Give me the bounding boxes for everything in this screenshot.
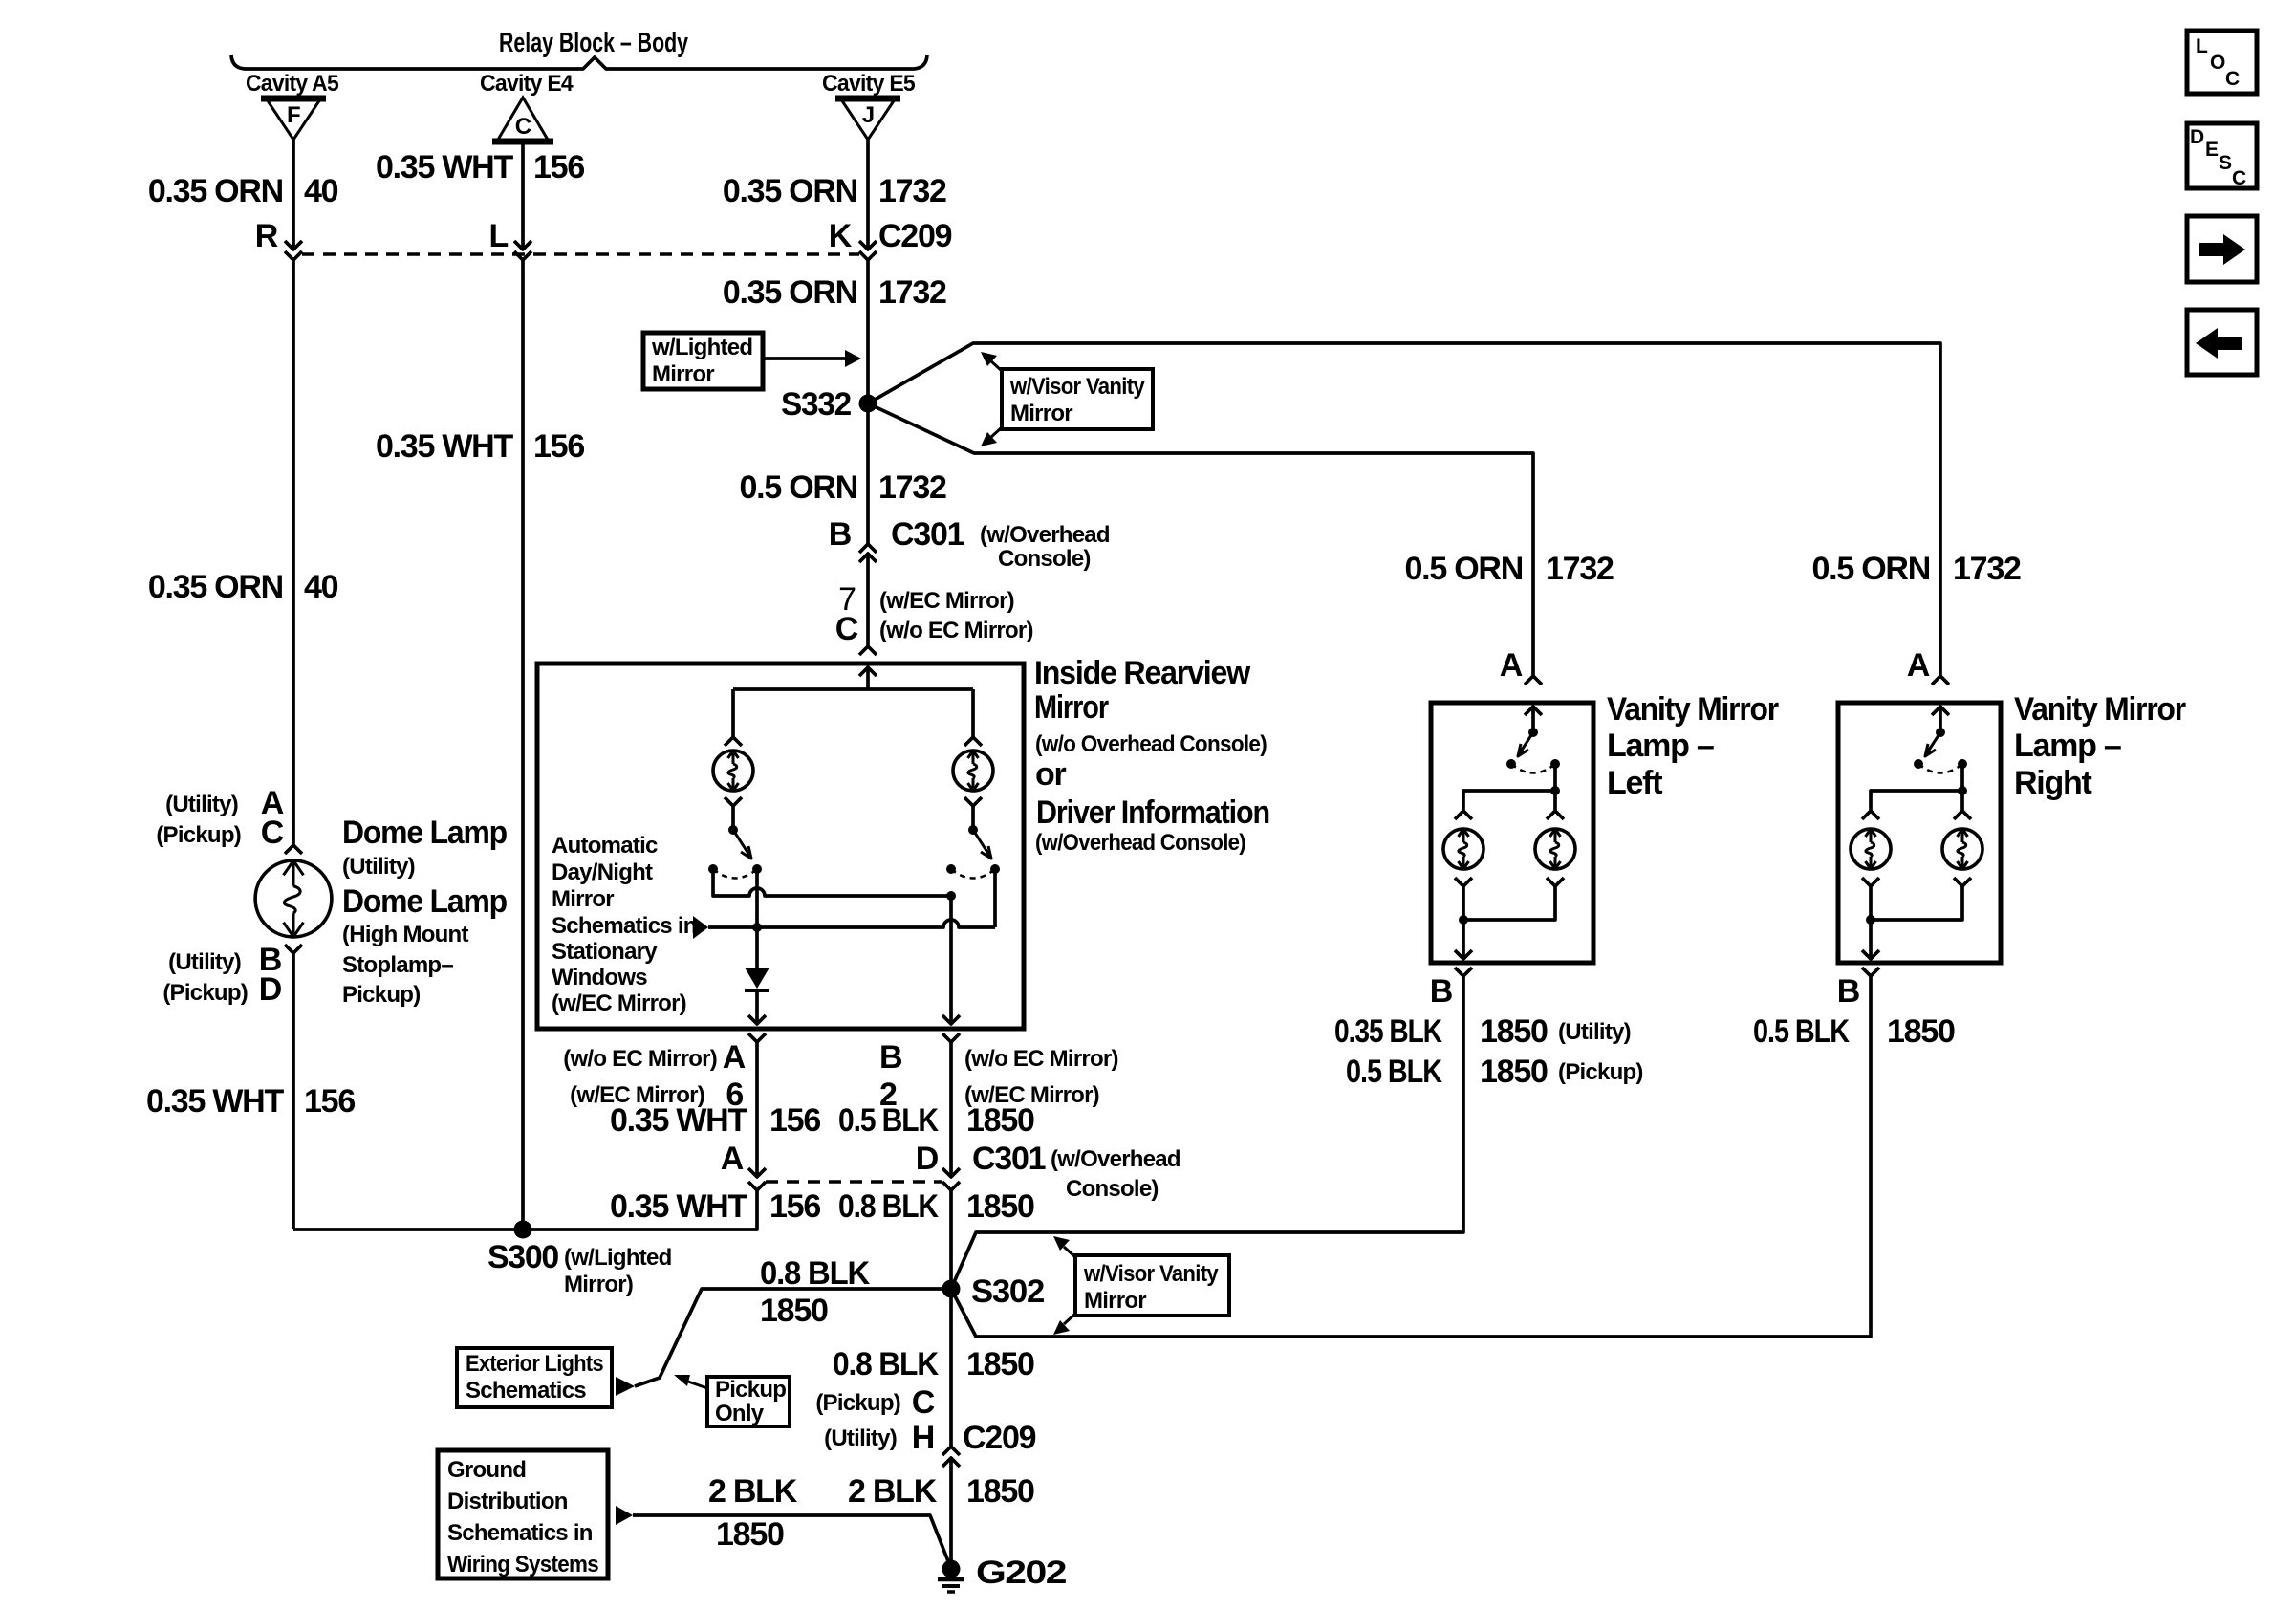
right arrow icon box <box>2187 216 2257 282</box>
svg-text:Distribution: Distribution <box>447 1489 568 1514</box>
connector C301 pin B halves <box>859 544 877 553</box>
mirror left lamp lower connector <box>725 797 742 806</box>
connector C301 pin A <box>748 1168 766 1177</box>
pin B socket (left) <box>1455 968 1472 976</box>
svg-text:Mirror: Mirror <box>652 361 714 387</box>
svg-text:Cavity E4: Cavity E4 <box>480 71 574 97</box>
svg-text:L: L <box>488 218 508 254</box>
svg-text:S302: S302 <box>971 1273 1044 1310</box>
dome lamp connector top <box>285 845 302 854</box>
wire C209-H to G202 <box>949 1458 953 1569</box>
svg-text:D: D <box>2190 126 2204 148</box>
svg-text:156: 156 <box>533 428 584 465</box>
svg-text:C301: C301 <box>972 1141 1046 1177</box>
svg-text:40: 40 <box>304 173 338 209</box>
svg-text:0.5 ORN: 0.5 ORN <box>1811 551 1930 587</box>
junction dot left column <box>752 923 762 932</box>
svg-text:0.5 ORN: 0.5 ORN <box>739 469 857 506</box>
mirror left switch arm <box>733 830 750 857</box>
svg-text:C209: C209 <box>963 1420 1036 1456</box>
mirror crossover wire upper <box>713 869 951 896</box>
svg-text:C: C <box>835 611 858 647</box>
mirror left lamp branch <box>731 689 735 736</box>
svg-text:E: E <box>2205 139 2219 161</box>
rail junction dot (right) <box>1958 786 1967 795</box>
svg-text:(High Mount: (High Mount <box>342 922 468 947</box>
svg-text:Cavity A5: Cavity A5 <box>246 71 338 97</box>
svg-text:R: R <box>255 218 278 254</box>
svg-text:0.5 BLK: 0.5 BLK <box>838 1102 939 1139</box>
svg-text:(w/EC Mirror): (w/EC Mirror) <box>552 990 686 1016</box>
svg-text:Left: Left <box>1607 765 1662 801</box>
svg-text:H: H <box>912 1420 934 1456</box>
svg-text:0.35 ORN: 0.35 ORN <box>148 173 283 209</box>
svg-text:0.5 BLK: 0.5 BLK <box>1753 1013 1850 1050</box>
wire contact to lamp rail (left) <box>1553 764 1557 791</box>
svg-text:40: 40 <box>304 569 338 605</box>
svg-text:Stationary: Stationary <box>552 939 658 965</box>
mirror right switch arm <box>973 830 990 857</box>
LOC icon box <box>2187 31 2257 94</box>
mirror right lamp branch <box>971 689 975 736</box>
pin B socket (right) <box>1862 968 1879 976</box>
svg-text:Relay Block – Body: Relay Block – Body <box>499 28 688 58</box>
svg-text:Right: Right <box>2014 765 2092 801</box>
svg-text:A: A <box>723 1039 746 1076</box>
svg-text:(Utility): (Utility) <box>168 949 241 975</box>
mirror feed arrowhead <box>859 667 877 676</box>
arrow w/Lighted Mirror to wire <box>765 357 845 360</box>
svg-text:Only: Only <box>715 1401 765 1426</box>
connector C301 pin D <box>942 1168 960 1177</box>
svg-text:or: or <box>1035 756 1067 793</box>
svg-text:A: A <box>1500 647 1523 684</box>
lamp rail (right) <box>1871 791 1962 810</box>
svg-text:Pickup: Pickup <box>715 1377 786 1403</box>
exterior lights pointer triangle <box>616 1377 635 1396</box>
svg-text:(Utility): (Utility) <box>824 1425 897 1451</box>
vanity lamp 1 (left) <box>1455 811 1472 819</box>
svg-text:1732: 1732 <box>1953 551 2021 587</box>
svg-text:0.8 BLK: 0.8 BLK <box>833 1346 940 1382</box>
mirror right lamp lower connector <box>964 797 982 806</box>
DESC icon box <box>2187 123 2257 188</box>
svg-text:0.35 WHT: 0.35 WHT <box>146 1083 285 1120</box>
svg-text:1732: 1732 <box>878 173 946 209</box>
callout arrows to visor wires <box>990 360 1002 371</box>
svg-text:(w/o Overhead Console): (w/o Overhead Console) <box>1035 731 1267 757</box>
wire S332 to left vanity feed (bottom) <box>868 403 1533 676</box>
svg-text:K: K <box>829 218 853 254</box>
w/Visor Vanity Mirror callout box 2 <box>1075 1255 1229 1316</box>
mirror left switch contacts <box>708 864 718 874</box>
wire J down to C209 <box>866 140 870 250</box>
svg-text:Mirror: Mirror <box>1010 401 1072 426</box>
pickup only box <box>707 1377 790 1426</box>
wire left contact down <box>755 869 759 927</box>
svg-text:w/Visor Vanity: w/Visor Vanity <box>1009 374 1145 400</box>
svg-text:(Pickup): (Pickup) <box>815 1390 900 1416</box>
svg-text:C301: C301 <box>891 516 964 553</box>
pin A socket (left) <box>1525 676 1542 685</box>
mirror left switch dashed arc <box>713 869 757 879</box>
exit wire (left) <box>1462 920 1465 959</box>
return junction dot (right) <box>1866 915 1875 925</box>
svg-text:(Utility): (Utility) <box>165 792 238 817</box>
svg-text:0.5 BLK: 0.5 BLK <box>1346 1054 1442 1090</box>
svg-text:B: B <box>829 516 852 553</box>
svg-text:Automatic: Automatic <box>552 833 658 859</box>
pin A/6 socket <box>748 1033 766 1042</box>
mirror left switch pivot <box>728 825 738 835</box>
vanity lamp 1 (right) <box>1862 811 1879 819</box>
svg-text:Mirror: Mirror <box>1084 1288 1146 1314</box>
svg-text:B: B <box>1430 973 1453 1010</box>
svg-text:Dome Lamp: Dome Lamp <box>342 883 507 920</box>
mirror internal feed wire <box>866 667 870 689</box>
svg-text:J: J <box>862 102 875 128</box>
connector triangle C (Cavity E4) <box>492 98 553 141</box>
wire S332 to C301 pin B <box>866 403 870 544</box>
svg-text:C: C <box>2232 167 2246 189</box>
svg-text:0.35 WHT: 0.35 WHT <box>610 1102 748 1139</box>
svg-text:D: D <box>259 971 282 1008</box>
svg-text:(Pickup): (Pickup) <box>1558 1059 1643 1085</box>
svg-text:Console): Console) <box>998 546 1091 572</box>
wire vanity left return to S302 <box>951 976 1463 1289</box>
svg-text:A: A <box>1907 647 1930 684</box>
wire C down to C209 <box>521 143 525 250</box>
vanity switch arm (left) <box>1519 732 1533 754</box>
svg-text:F: F <box>287 102 300 128</box>
svg-text:C: C <box>515 114 531 140</box>
lamp return rail (right) <box>1871 886 1962 920</box>
svg-text:Schematics: Schematics <box>466 1378 586 1403</box>
svg-text:0.8 BLK: 0.8 BLK <box>760 1255 871 1292</box>
dome lamp connector bottom <box>285 945 302 953</box>
left arrow icon box <box>2187 310 2257 375</box>
svg-text:O: O <box>2210 52 2225 74</box>
svg-text:Lamp –: Lamp – <box>1607 728 1714 764</box>
svg-text:Mirror: Mirror <box>1034 689 1109 726</box>
return junction dot (left) <box>1459 915 1468 925</box>
svg-text:156: 156 <box>769 1102 820 1139</box>
svg-text:156: 156 <box>304 1083 355 1120</box>
svg-text:1850: 1850 <box>1887 1013 1955 1050</box>
wire C301-B to mirror <box>866 554 870 646</box>
ground distribution pointer triangle <box>616 1506 633 1525</box>
splice S332 dot <box>859 395 877 413</box>
ground distribution box <box>438 1450 608 1578</box>
ground G202 symbol <box>942 1560 961 1578</box>
mirror right switch dashed arc <box>951 869 995 879</box>
connector triangle F (Cavity A5) <box>261 98 326 140</box>
wire exterior lights to S302 <box>635 1289 951 1386</box>
svg-text:156: 156 <box>533 149 584 185</box>
vanity mirror lamp right box <box>1838 703 2001 963</box>
mirror left lamp <box>713 751 753 791</box>
svg-text:Driver Information: Driver Information <box>1036 794 1269 831</box>
mirror connector socket <box>859 646 877 655</box>
pin B/2 socket <box>942 1033 960 1042</box>
svg-text:Inside Rearview: Inside Rearview <box>1034 655 1251 691</box>
exterior lights schematics box <box>457 1348 612 1407</box>
wire contact to lamp rail (right) <box>1960 764 1964 791</box>
svg-text:Lamp –: Lamp – <box>2014 728 2121 764</box>
splice S302 dot <box>942 1280 961 1298</box>
connector C209 pin C/H halves <box>942 1447 960 1455</box>
svg-text:(w/EC Mirror): (w/EC Mirror) <box>879 588 1014 614</box>
svg-text:B: B <box>1837 973 1860 1010</box>
vanity switch pivot (left) <box>1528 728 1538 737</box>
svg-text:G202: G202 <box>976 1555 1066 1591</box>
feed arrowhead (right) <box>1932 707 1949 715</box>
wire L to S300 <box>521 260 525 1229</box>
svg-text:Ground: Ground <box>447 1457 526 1483</box>
inside rearview mirror box <box>537 664 1024 1029</box>
relay block brace <box>231 55 927 69</box>
svg-text:(w/Lighted: (w/Lighted <box>564 1245 672 1271</box>
vanity switch contacts (right) <box>1914 759 1923 769</box>
svg-text:1850: 1850 <box>1480 1054 1548 1090</box>
svg-text:(Utility): (Utility) <box>342 854 415 880</box>
svg-text:B: B <box>879 1039 902 1076</box>
svg-text:Console): Console) <box>1066 1176 1159 1202</box>
svg-text:(w/o EC Mirror): (w/o EC Mirror) <box>563 1046 717 1072</box>
svg-text:Cavity E5: Cavity E5 <box>822 71 915 97</box>
svg-text:Mirror: Mirror <box>552 886 614 912</box>
svg-text:0.5 ORN: 0.5 ORN <box>1404 551 1523 587</box>
wire pin B to C301 <box>949 1042 953 1177</box>
svg-text:0.35 BLK: 0.35 BLK <box>1334 1013 1442 1050</box>
wire C301-D down to S302 <box>949 1190 953 1447</box>
svg-text:1732: 1732 <box>878 274 946 311</box>
connector C209 pin R halves <box>285 241 302 250</box>
svg-text:1732: 1732 <box>878 469 946 506</box>
wire 2 BLK to ground <box>633 1515 950 1566</box>
connector C209 dashed line <box>302 252 859 256</box>
svg-text:C: C <box>912 1384 935 1421</box>
svg-text:156: 156 <box>769 1188 820 1225</box>
callout arrows to visor wires (S302) <box>1064 1247 1075 1257</box>
wire K to S332 <box>866 260 870 403</box>
svg-text:(w/Overhead Console): (w/Overhead Console) <box>1035 830 1245 856</box>
w/Lighted Mirror callout box <box>643 333 763 389</box>
wire R to dome lamp <box>292 260 295 845</box>
dome lamp bulb <box>255 860 332 937</box>
connector C301 dashed line <box>766 1180 942 1184</box>
pin A socket (right) <box>1932 676 1949 685</box>
svg-text:1850: 1850 <box>966 1188 1034 1225</box>
svg-text:1850: 1850 <box>760 1293 828 1329</box>
svg-text:w/Visor Vanity: w/Visor Vanity <box>1083 1261 1219 1287</box>
svg-text:Windows: Windows <box>552 965 647 990</box>
wire to pin B/2 <box>949 896 953 1024</box>
svg-text:L: L <box>2196 35 2208 57</box>
svg-text:Stoplamp–: Stoplamp– <box>342 952 453 978</box>
svg-text:C: C <box>261 815 284 851</box>
svg-text:Mirror): Mirror) <box>564 1272 633 1297</box>
svg-text:C: C <box>2225 68 2240 90</box>
mirror right switch pivot <box>968 825 978 835</box>
svg-text:0.35 WHT: 0.35 WHT <box>376 428 514 465</box>
wire to diode <box>755 927 759 968</box>
svg-text:Exterior Lights: Exterior Lights <box>466 1351 603 1377</box>
vanity switch dashed arc (right) <box>1918 764 1962 773</box>
wire S332 to right vanity feed (top) <box>868 343 1940 676</box>
svg-text:0.35 ORN: 0.35 ORN <box>723 173 857 209</box>
lamp rail (left) <box>1463 791 1555 810</box>
svg-text:(Pickup): (Pickup) <box>162 980 248 1006</box>
svg-text:(w/o EC Mirror): (w/o EC Mirror) <box>964 1046 1118 1072</box>
diode <box>745 968 769 989</box>
mirror right lamp <box>953 751 993 791</box>
connector triangle J (Cavity E5) <box>835 98 900 140</box>
svg-text:(w/Overhead: (w/Overhead <box>980 522 1110 548</box>
svg-text:0.35 WHT: 0.35 WHT <box>610 1188 748 1225</box>
svg-text:Schematics in: Schematics in <box>447 1520 593 1546</box>
wire dome lamp to S300 <box>292 953 295 1229</box>
svg-text:C209: C209 <box>878 218 952 254</box>
wire vanity right return to S302 <box>951 976 1871 1337</box>
svg-text:0.8 BLK: 0.8 BLK <box>838 1188 939 1225</box>
wire diode to pin A/6 <box>755 990 759 1024</box>
svg-text:(w/Overhead: (w/Overhead <box>1051 1146 1180 1172</box>
mirror right switch contacts <box>946 864 956 874</box>
svg-text:Schematics in: Schematics in <box>552 913 697 939</box>
w/Visor Vanity Mirror callout box 1 <box>1002 369 1153 429</box>
svg-text:1732: 1732 <box>1546 551 1614 587</box>
feed arrowhead (left) <box>1525 707 1542 715</box>
svg-text:S: S <box>2219 152 2232 174</box>
svg-text:1850: 1850 <box>966 1346 1034 1382</box>
mirror crossover wire lower <box>708 920 995 927</box>
svg-text:2 BLK: 2 BLK <box>708 1473 798 1510</box>
svg-text:(w/o EC Mirror): (w/o EC Mirror) <box>879 618 1033 643</box>
svg-text:S300: S300 <box>487 1239 558 1275</box>
svg-text:1850: 1850 <box>716 1516 784 1553</box>
wire pin A to C301 <box>755 1042 759 1177</box>
svg-text:1850: 1850 <box>966 1473 1034 1510</box>
svg-text:Dome Lamp: Dome Lamp <box>342 815 507 851</box>
svg-text:Vanity Mirror: Vanity Mirror <box>1607 691 1779 728</box>
svg-text:A: A <box>721 1141 744 1177</box>
vanity lamp 2 (left) <box>1547 811 1564 819</box>
splice S300 dot <box>514 1221 532 1239</box>
svg-text:Vanity Mirror: Vanity Mirror <box>2014 691 2186 728</box>
svg-text:1850: 1850 <box>1480 1013 1548 1050</box>
vanity switch arm (right) <box>1926 732 1940 754</box>
svg-text:0.35 ORN: 0.35 ORN <box>723 274 857 311</box>
svg-text:(Pickup): (Pickup) <box>156 822 241 848</box>
svg-text:D: D <box>916 1141 939 1177</box>
wire right contact up <box>993 869 997 927</box>
vanity switch contacts (left) <box>1506 759 1516 769</box>
vanity switch dashed arc (left) <box>1511 764 1555 773</box>
vanity mirror lamp left box <box>1431 703 1593 963</box>
svg-text:2 BLK: 2 BLK <box>848 1473 938 1510</box>
svg-text:Day/Night: Day/Night <box>552 859 653 885</box>
connector C209 pin L halves <box>514 241 531 250</box>
junction dot right column <box>946 891 956 901</box>
svg-text:w/Lighted: w/Lighted <box>651 335 752 360</box>
svg-text:0.35 ORN: 0.35 ORN <box>148 569 283 605</box>
vanity lamp 2 (right) <box>1954 811 1971 819</box>
connector C209 pin K halves <box>859 241 877 250</box>
exit wire (right) <box>1869 920 1873 959</box>
lamp return rail (left) <box>1463 886 1555 920</box>
pickup only arrow <box>685 1381 707 1388</box>
svg-text:(Utility): (Utility) <box>1558 1019 1631 1045</box>
svg-text:1850: 1850 <box>966 1102 1034 1139</box>
svg-text:S332: S332 <box>781 386 851 423</box>
wire C301-A down to S300 row <box>293 1190 757 1229</box>
svg-text:Wiring Systems: Wiring Systems <box>447 1552 598 1577</box>
wire F down to C209 <box>292 140 295 250</box>
rail junction dot (left) <box>1550 786 1560 795</box>
svg-text:0.35 WHT: 0.35 WHT <box>376 149 514 185</box>
schematics pointer triangle <box>693 916 708 939</box>
vanity switch pivot (right) <box>1936 728 1945 737</box>
svg-text:Pickup): Pickup) <box>342 982 420 1008</box>
mirror internal rail <box>733 687 973 691</box>
